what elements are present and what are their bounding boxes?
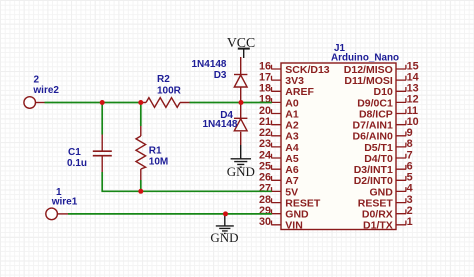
- svg-text:D3: D3: [214, 70, 227, 81]
- svg-text:D8/ICP: D8/ICP: [359, 108, 393, 120]
- svg-text:D4/T0: D4/T0: [364, 153, 393, 165]
- svg-text:GND: GND: [210, 230, 238, 245]
- svg-text:D11/MOSI: D11/MOSI: [344, 75, 393, 87]
- svg-text:A1: A1: [285, 108, 299, 120]
- svg-text:4: 4: [407, 183, 413, 195]
- svg-text:17: 17: [259, 71, 271, 83]
- svg-text:14: 14: [407, 71, 419, 83]
- svg-text:11: 11: [407, 105, 418, 117]
- svg-text:C1: C1: [68, 147, 81, 158]
- svg-text:100R: 100R: [157, 85, 182, 96]
- svg-text:R2: R2: [157, 74, 170, 85]
- svg-text:20: 20: [259, 105, 271, 117]
- svg-text:1N4148: 1N4148: [191, 59, 226, 70]
- svg-text:wire1: wire1: [51, 197, 78, 208]
- svg-text:5V: 5V: [285, 186, 298, 198]
- svg-text:24: 24: [259, 149, 271, 161]
- svg-text:30: 30: [259, 216, 271, 228]
- svg-text:A5: A5: [285, 153, 299, 165]
- svg-text:1N4148: 1N4148: [202, 119, 237, 130]
- svg-text:wire2: wire2: [32, 85, 59, 96]
- svg-text:0.1u: 0.1u: [67, 158, 87, 169]
- svg-text:Arduino_Nano: Arduino_Nano: [331, 53, 399, 64]
- svg-text:3V3: 3V3: [285, 75, 304, 87]
- svg-text:GND: GND: [227, 164, 255, 179]
- svg-text:2: 2: [34, 74, 40, 85]
- svg-text:GND: GND: [369, 186, 393, 198]
- svg-text:VIN: VIN: [285, 220, 303, 232]
- svg-text:R1: R1: [149, 146, 162, 157]
- svg-text:1: 1: [407, 216, 413, 228]
- svg-text:D1/TX: D1/TX: [363, 220, 393, 232]
- svg-text:10M: 10M: [149, 156, 168, 167]
- svg-text:VCC: VCC: [227, 35, 255, 50]
- svg-text:27: 27: [259, 183, 271, 195]
- svg-text:7: 7: [407, 149, 413, 161]
